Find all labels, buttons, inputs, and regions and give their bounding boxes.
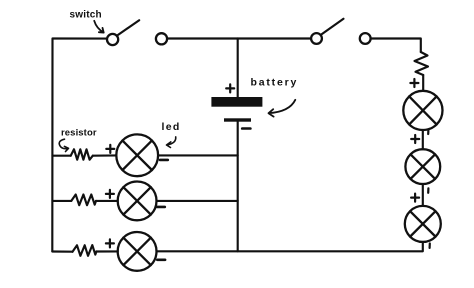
LED D4 (right top) [403,91,442,130]
wire bottom: LED D6 to bottom rail joining branch 3 [157,242,423,251]
switch SW2 blade [321,19,343,35]
LED D5 (right middle) [405,149,440,184]
LED D4 minus tick [427,130,429,134]
LED D3 minus sign [157,258,165,261]
LED D6 plus sign [411,194,419,202]
wire LED D4 to LED D5 [422,130,424,149]
wire resistor R4 to LED D4 [422,75,424,91]
switch SW2 terminal circle (right) [360,33,371,44]
wire battery rail bottom [237,122,239,252]
wire resistor R1 to LED D1 [93,154,117,156]
arrow led label [167,137,176,148]
svg-text:battery: battery [251,77,299,89]
LED D2 plus sign [106,190,114,198]
wire resistor R2 to LED D2 [96,200,118,202]
resistor R3 [73,245,97,256]
switch SW1 blade [118,20,140,35]
wire LED D5 to LED D6 [422,184,424,206]
wire LED D2 to battery rail [157,200,238,202]
battery BT1 negative plate [224,118,251,121]
LED D2 minus sign [157,206,165,209]
svg-text:switch: switch [70,9,102,20]
LED D5 plus sign [411,135,419,143]
LED D4 plus sign [410,79,418,87]
switch SW2 terminal circle (left) [311,33,322,44]
LED D6 (right bottom) [405,206,441,242]
wire resistor R3 to LED D3 [96,250,117,252]
svg-text:led: led [162,121,181,133]
wire left rail with top segment to switch SW1 [52,39,106,252]
switch SW1 terminal circle (left) [107,34,118,45]
wire from SW1 to node and to switch SW2 [167,37,311,39]
battery BT1 positive plate [211,97,262,107]
LED D5 minus tick [427,188,429,192]
switch SW1 terminal circle (right) [156,33,167,44]
battery minus sign [242,127,250,130]
LED D3 (left branch 3) [118,232,157,271]
LED D1 (left branch 1) [116,134,158,176]
wire from SW2 to right rail top corner [371,39,421,53]
wire branch 1 left [53,155,71,157]
resistor R1 [71,149,93,159]
battery plus sign [226,84,234,92]
wire branch 3 left [52,250,72,252]
svg-text:resistor: resistor [61,128,97,139]
LED D1 minus sign [160,159,168,162]
wire LED D1 to battery rail [158,154,238,156]
wire branch 2 left [53,200,72,202]
LED D2 (left branch 2) [118,182,157,221]
arrow battery label [269,100,296,117]
resistor R2 [71,195,96,206]
resistor R4 (right, vertical) [415,52,429,75]
LED D3 plus sign [106,239,114,247]
wire battery rail top [237,39,239,98]
arrow switch label [94,21,104,33]
arrow resistor label [59,139,68,151]
LED D1 plus sign [106,145,114,153]
LED D6 minus tick [429,244,431,248]
